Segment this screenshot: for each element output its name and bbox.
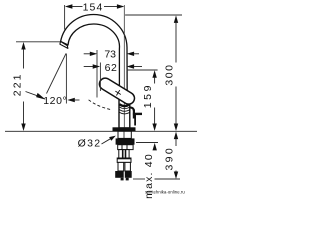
wire: 154 left extension line <box>64 5 66 30</box>
threaded shank between deck and nut <box>118 131 131 138</box>
120deg left arrow <box>26 92 46 100</box>
faucet body column <box>119 99 130 129</box>
spout tube (white fill, black outline) <box>61 14 128 101</box>
120deg vertical boundary line <box>65 54 67 104</box>
wire: 159 top extension line <box>127 69 158 71</box>
washer band <box>118 145 133 150</box>
base flange (black) on deck <box>113 127 136 131</box>
svg-text:221: 221 <box>11 72 23 96</box>
wire: 390 bottom extension line <box>133 178 145 180</box>
dimension 159 <box>142 70 157 131</box>
body collar rings <box>119 107 129 109</box>
wire: 62 extension line <box>99 63 101 92</box>
dimension 73 <box>84 48 139 60</box>
svg-text:Ø32: Ø32 <box>78 137 102 149</box>
svg-text:73: 73 <box>104 48 116 60</box>
wire: deck/countertop line <box>5 130 197 132</box>
hose connector right <box>125 162 130 171</box>
pull-rod hook at right of body <box>130 107 134 111</box>
svg-text:300: 300 <box>164 64 176 86</box>
hose end stubs <box>121 178 124 181</box>
wire: 73 extension line (handle tip) <box>96 50 98 98</box>
svg-text:120°: 120° <box>43 95 67 107</box>
dimension 62 <box>84 62 142 74</box>
wire: 154 right extension / body centre line <box>123 5 125 131</box>
shank lower with hose pair <box>119 150 129 158</box>
angular dimension 120deg : diagonal boundary line <box>47 54 67 94</box>
wire: max40 lower reference line <box>136 142 158 144</box>
dimension 300 <box>164 15 179 131</box>
svg-text:159: 159 <box>142 83 154 108</box>
svg-text:santehnika-online.ru: santehnika-online.ru <box>145 189 185 194</box>
svg-text:154: 154 <box>83 1 104 13</box>
wire: 300 top extension line <box>125 14 182 16</box>
dimension 390 <box>164 132 179 179</box>
svg-text:390: 390 <box>164 146 176 171</box>
120deg right arrow <box>67 98 79 102</box>
label diameter 32 with leader <box>78 136 116 150</box>
mounting nut (black) <box>116 138 135 144</box>
hex section band <box>117 158 131 162</box>
dimension 154 <box>65 1 125 13</box>
handle/body dark joint <box>119 104 129 106</box>
wire: extension line left of outlet (221 top reference) <box>16 41 60 43</box>
hose connector left <box>118 162 124 171</box>
dimension max. 40 lower arrow <box>143 143 157 199</box>
dashed swivel outline of handle <box>89 100 112 110</box>
connector nuts (black) <box>115 171 124 178</box>
spout outlet aerator cap <box>60 41 68 48</box>
dimension 221 (left vertical) <box>11 42 25 131</box>
lever handle (pill) <box>97 76 137 106</box>
handle cross mark <box>115 91 120 94</box>
svg-text:62: 62 <box>105 62 118 74</box>
